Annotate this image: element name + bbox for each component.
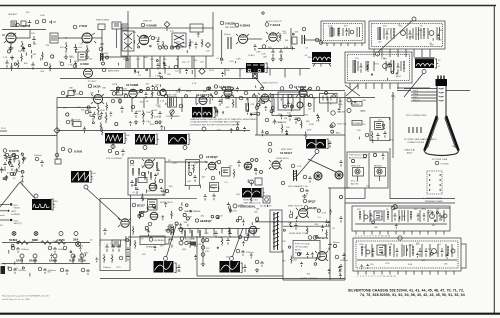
box2 marks — [114, 24, 119, 26]
conv socket1 inner — [356, 170, 358, 172]
circ hr1 — [180, 237, 184, 241]
takeoff circle2 — [291, 105, 294, 108]
small cluster under: cap — [8, 155, 12, 162]
chain1 cap a — [53, 247, 57, 253]
yoke stub y210 — [0, 210, 7, 212]
takeoff circles — [284, 105, 287, 108]
svg-text:12 AU7: 12 AU7 — [248, 54, 256, 57]
vertical wire x257 — [256, 95, 258, 135]
svg-text:1.5K: 1.5K — [415, 34, 420, 36]
IF strip values — [133, 31, 211, 53]
chain2 sym5 — [80, 254, 84, 258]
vertical wire x128 top — [127, 11, 129, 69]
box E nested outline right — [461, 244, 466, 268]
svg-text:2.2K: 2.2K — [261, 53, 266, 55]
svg-text:275V: 275V — [421, 209, 426, 211]
svg-text:470K: 470K — [409, 245, 414, 247]
left cluster circ3 — [260, 171, 263, 174]
box C values — [366, 58, 399, 80]
chain2 cap d — [86, 269, 90, 275]
heater row1 sym b marks — [35, 232, 38, 235]
yoke stub y204 — [0, 204, 10, 206]
yoke stub marker y204 — [10, 203, 12, 205]
circled pin t2 — [73, 25, 77, 29]
svg-text:10K: 10K — [155, 85, 159, 87]
svg-text:5CM4: 5CM4 — [9, 238, 17, 242]
speaker connector dark — [1, 266, 6, 274]
svg-text:275V: 275V — [378, 216, 383, 218]
box D circ2 — [443, 214, 447, 218]
circ so1 — [335, 255, 339, 259]
delay line box — [168, 97, 177, 107]
capacitor C2 — [32, 36, 36, 45]
mixer box — [50, 33, 58, 43]
wire y203 right — [345, 202, 455, 204]
horiz extra parts2 — [290, 209, 328, 264]
small res — [162, 41, 164, 49]
power circ — [119, 256, 123, 260]
vertical x102 — [101, 30, 103, 61]
svg-text:Reproduced by agreement SCHEM: Reproduced by agreement SCHEMATIC No 415 — [2, 295, 50, 298]
node circle A — [35, 20, 39, 24]
border frame bottom rule — [0, 313, 500, 315]
tube V19b electrodes — [151, 215, 157, 218]
mid chain x126 circ — [125, 238, 129, 242]
sound takeoff box outer — [278, 92, 300, 110]
box E in-box mark — [379, 248, 383, 253]
tube V12 — [299, 89, 307, 97]
W4 bracket — [124, 133, 127, 144]
spoked circle 2 — [335, 171, 343, 179]
tube V21 electrodes — [122, 219, 128, 224]
tube V14 stubs — [258, 93, 271, 102]
cap ho — [328, 242, 332, 249]
circled bo2 — [179, 241, 183, 245]
svg-text:47K: 47K — [383, 26, 387, 28]
circled pin d — [176, 46, 179, 49]
svg-text:2.2K: 2.2K — [29, 242, 34, 244]
tube V14 electrodes — [262, 94, 268, 99]
chain2 circ cap b — [38, 267, 42, 271]
cluster res — [22, 155, 24, 164]
svg-text:PIN 6: PIN 6 — [413, 94, 419, 96]
tube V19b — [150, 212, 158, 220]
noise adj circ — [149, 238, 153, 242]
svg-text:ADJ 3%: ADJ 3% — [351, 183, 359, 186]
circ pair vol1 — [315, 38, 319, 42]
svg-text:9 5U8: 9 5U8 — [74, 150, 82, 154]
circled osc2 — [106, 56, 109, 59]
audio cluster circ a1 — [5, 153, 8, 156]
wire y208 — [394, 207, 450, 209]
circ mid2 — [268, 149, 272, 153]
wire y280 — [283, 279, 345, 281]
right parts: box h2 — [117, 88, 123, 96]
svg-text:470K: 470K — [100, 110, 105, 112]
ground vc2 — [158, 120, 162, 125]
tube V23 stubs — [296, 208, 309, 218]
svg-text:68K: 68K — [339, 101, 343, 103]
chain1 heater sym — [76, 242, 81, 247]
chain2 circ cap a — [8, 267, 12, 271]
box B coil1 — [378, 27, 381, 40]
svg-text:4.7K: 4.7K — [192, 83, 197, 85]
ground vc — [134, 120, 138, 125]
res ho pair — [288, 222, 292, 227]
flyback values — [350, 99, 394, 143]
conv cap t — [382, 153, 385, 160]
circ contrast — [170, 110, 174, 114]
svg-text:8CG7A: 8CG7A — [318, 236, 329, 240]
tube V3 osc — [84, 69, 93, 78]
box B circ1 — [401, 31, 406, 36]
cap vc2 — [158, 111, 162, 118]
x203 circ2 — [201, 246, 205, 250]
audio chain values — [256, 31, 312, 59]
circ cap mid — [236, 249, 240, 253]
svg-text:470K: 470K — [78, 246, 83, 248]
svg-text:BRIGHTNESS: BRIGHTNESS — [243, 119, 257, 121]
cap bottom s2 — [271, 49, 275, 57]
circ pair hr1 — [111, 99, 115, 103]
box B inner dashed — [372, 24, 443, 47]
x257 ground — [255, 268, 259, 273]
svg-text:10K: 10K — [219, 216, 223, 218]
tube V12 electrodes — [300, 89, 306, 94]
W11 diagonal — [167, 224, 177, 257]
video bias values — [129, 100, 181, 130]
cluster circ cc2 — [115, 151, 118, 154]
box B coil3 — [437, 27, 440, 40]
box B cap1 — [386, 30, 389, 40]
circled pin if2 — [220, 21, 224, 25]
svg-text:HORIZ HOLD: HORIZ HOLD — [276, 158, 289, 160]
box D cap1 — [370, 213, 373, 221]
circ above elec — [302, 27, 306, 31]
circled pin vo1 — [132, 203, 136, 207]
tube V24 stubs — [315, 251, 328, 261]
circled pin h0 — [61, 91, 65, 95]
parts: res — [151, 90, 153, 98]
cap sd2 — [294, 117, 298, 124]
box D res2 — [387, 211, 389, 220]
svg-text:POWER: POWER — [353, 123, 361, 125]
wire drops from enclosure — [130, 56, 194, 68]
left cluster box — [255, 178, 262, 185]
svg-text:SOUND OUTPUT: SOUND OUTPUT — [300, 278, 317, 280]
terminal dots — [429, 175, 441, 190]
empty rect top — [190, 24, 203, 32]
tube V24 sound out — [318, 252, 327, 261]
CRT neck left — [436, 86, 438, 116]
vert section extra parts — [138, 165, 259, 233]
svg-text:47K: 47K — [60, 47, 64, 49]
box D coil — [402, 210, 405, 221]
ground s3 — [279, 57, 283, 62]
circled ho2 — [289, 214, 293, 218]
cap on x102 — [100, 44, 104, 48]
heater row1 sym d — [74, 232, 78, 236]
circled bo1 — [179, 228, 183, 232]
svg-text:2.2K: 2.2K — [205, 251, 210, 253]
res h2 vertical — [105, 112, 107, 123]
circled right r1 — [331, 111, 335, 115]
circled pin h2 — [88, 84, 92, 88]
svg-text:3.9K CONTRAST: 3.9K CONTRAST — [106, 157, 123, 160]
W2 callout diagonal — [404, 74, 423, 98]
circ vh2 — [148, 222, 152, 226]
wire bus y135 left — [0, 135, 57, 137]
svg-text:4.5K: 4.5K — [328, 26, 333, 28]
chain2 cap a — [13, 268, 17, 274]
vert box — [128, 158, 165, 195]
svg-text:275V: 275V — [303, 114, 308, 116]
wire y276 — [197, 275, 283, 277]
heater row1 sym b — [34, 232, 38, 236]
circled sd3 — [265, 118, 269, 122]
sound det extra parts — [257, 101, 334, 140]
video row pin circles — [116, 87, 335, 98]
pair marks — [123, 26, 127, 28]
tube V5 electrodes — [240, 34, 246, 40]
small parts row: cap — [157, 39, 160, 46]
svg-text:8FQ7: 8FQ7 — [308, 200, 316, 204]
W6 trace — [169, 137, 186, 143]
cluster box — [138, 178, 147, 183]
tube V14 — [261, 94, 269, 102]
wire video bus y90 — [110, 90, 345, 92]
circled vo2 — [217, 160, 220, 163]
cap hr — [120, 106, 124, 113]
tube V1 pin stubs — [2, 33, 16, 43]
box E circ0 — [366, 250, 370, 254]
balun box — [21, 21, 26, 26]
mid chain box — [210, 183, 219, 192]
waveform photo W11 — [154, 261, 174, 273]
res fb — [371, 131, 373, 140]
left cluster cap — [254, 168, 258, 175]
svg-text:6 3DK6: 6 3DK6 — [240, 24, 251, 28]
svg-text:275V: 275V — [74, 94, 79, 96]
res right of V7 — [279, 33, 281, 41]
small rect coil — [292, 37, 297, 44]
svg-text:PIN 7: PIN 7 — [413, 97, 419, 99]
vert box res2 — [138, 168, 140, 176]
box A coil 1 — [330, 27, 333, 37]
tube V7 electrodes — [270, 33, 276, 42]
svg-text:450mw: 450mw — [333, 242, 340, 244]
circled vo4 — [238, 216, 242, 220]
tube V20b — [244, 162, 252, 170]
osc resistor box — [78, 52, 86, 60]
svg-text:56K: 56K — [439, 30, 443, 32]
svg-text:4.7K: 4.7K — [173, 163, 178, 165]
box E res1 — [361, 246, 363, 256]
parts right of W3: cap — [218, 99, 222, 106]
box E cap2 — [396, 248, 399, 257]
svg-text:2ND VIDEO IF: 2ND VIDEO IF — [225, 27, 239, 29]
left small res — [17, 60, 19, 69]
wire main B+ bus y68 — [0, 68, 310, 70]
svg-text:AGC: AGC — [336, 132, 341, 135]
circled mid2 — [195, 219, 198, 222]
cap vc1 — [134, 111, 138, 118]
coil hatches — [293, 171, 297, 180]
box E inner dashed — [356, 241, 458, 268]
svg-text:NOISE ADJ: NOISE ADJ — [154, 239, 165, 242]
W7 trace — [307, 139, 324, 149]
tube V18 — [145, 160, 153, 168]
box E circ2 — [451, 249, 455, 253]
delay line hatches — [170, 98, 174, 106]
svg-text:VERT(?): VERT(?) — [14, 223, 22, 225]
cap on x393 — [391, 93, 395, 100]
svg-text:VIDEO OUTPUT: VIDEO OUTPUT — [262, 83, 278, 85]
svg-text:6.8K: 6.8K — [278, 122, 283, 124]
svg-text:8AQ5: 8AQ5 — [309, 206, 317, 210]
tube V25 electrodes — [273, 161, 279, 166]
W9 bracket — [52, 199, 55, 210]
W1 trace — [313, 57, 331, 60]
tube V10 electrodes — [200, 97, 206, 102]
mini bar hatches — [171, 227, 174, 233]
conv socket1 outer — [355, 169, 360, 174]
svg-text:10K: 10K — [307, 273, 311, 275]
box E cap1 — [372, 248, 375, 257]
CRT lead y98 — [411, 97, 437, 99]
power caps — [105, 244, 121, 252]
svg-text:470K: 470K — [309, 124, 314, 126]
box A resistor — [338, 28, 340, 37]
box D values — [372, 209, 443, 229]
waveform photo W10 — [242, 188, 262, 198]
box E cap4 — [441, 248, 444, 257]
svg-text:33K: 33K — [231, 95, 235, 97]
blocking osc cluster — [139, 210, 212, 246]
vert bus drop wires — [8, 46, 329, 264]
chain2 sym4 — [71, 254, 75, 258]
box D cap2 — [394, 213, 397, 221]
circled pin t4 — [73, 64, 77, 68]
vert output transformer box — [270, 210, 282, 252]
waveform photo W2 — [415, 59, 434, 68]
cluster cap cc — [121, 149, 125, 156]
tube circle small v13 — [160, 89, 166, 95]
tube V4 electrodes — [141, 35, 148, 44]
left cluster circ2 — [255, 159, 258, 162]
waveform photo W6 — [168, 134, 187, 145]
svg-text:47K: 47K — [357, 209, 361, 211]
svg-text:CTL MHz: CTL MHz — [440, 164, 449, 166]
svg-text:33K: 33K — [97, 114, 101, 116]
chain1 circ cap a — [48, 246, 52, 250]
box B extra verticals — [334, 28, 428, 71]
small box below J — [263, 196, 270, 203]
vert box res4 — [150, 172, 152, 180]
svg-text:4.7K: 4.7K — [191, 239, 196, 241]
svg-text:1000mw: 1000mw — [246, 252, 254, 254]
circled pin l2 — [68, 149, 72, 153]
small cap2 — [195, 42, 198, 49]
W3 trace — [193, 107, 211, 118]
box A circ — [350, 30, 354, 34]
tube V20 — [208, 162, 216, 170]
vert box res1 — [132, 168, 134, 176]
cap fb1 — [376, 133, 380, 140]
svg-text:PIN 10: PIN 10 — [413, 100, 420, 102]
box A coil 2 — [357, 27, 360, 37]
IF enclosure box — [121, 28, 213, 56]
svg-text:150V: 150V — [136, 111, 141, 113]
small parts: res — [189, 39, 191, 47]
heater row1 sym a — [12, 232, 16, 236]
circled right r2 — [331, 123, 335, 127]
svg-text:47K: 47K — [217, 130, 221, 132]
chain2 cap c — [65, 269, 69, 275]
conv circ t2 — [373, 153, 376, 156]
left stub y135 — [0, 130, 7, 132]
tube V7 — [269, 33, 277, 41]
tube V2 5U8 — [82, 33, 92, 43]
tube V4 — [139, 35, 149, 45]
svg-text:PICTURE TUBE CHASSIS DEFLN: PICTURE TUBE CHASSIS DEFLN — [404, 138, 437, 141]
waveform photo W5 — [135, 134, 155, 145]
left column small parts: cap — [5, 60, 9, 68]
mixer box coil — [52, 35, 56, 41]
tube V18 electrodes — [146, 160, 152, 165]
svg-text:SPKR: SPKR — [1, 264, 7, 266]
svg-text:74, 75, 528.52050, 51, 52, 54,: 74, 75, 528.52050, 51, 52, 54, 56, 40, 4… — [360, 293, 465, 297]
circled afc3 — [281, 181, 285, 185]
W11 circled num — [164, 257, 168, 261]
box E cap3b — [425, 248, 428, 257]
transformer hatching — [273, 213, 279, 248]
vertical wire x203 — [202, 236, 204, 262]
horiz parts box — [370, 118, 390, 141]
audio out values — [3, 153, 28, 180]
vert out values — [141, 202, 260, 239]
svg-text:275V: 275V — [141, 165, 146, 167]
circled pin t1 — [16, 23, 19, 26]
tube V21 stubs — [118, 218, 131, 227]
cap c203 — [226, 238, 230, 245]
svg-text:SCREEN: SCREEN — [11, 214, 20, 216]
W3 bracket cap — [216, 109, 219, 117]
svg-text:1000mw: 1000mw — [34, 155, 42, 157]
ground g2 — [64, 54, 68, 60]
threshold res — [281, 124, 283, 133]
svg-text:13 8FQ7: 13 8FQ7 — [206, 155, 218, 159]
chain2 sym2 — [33, 254, 37, 258]
noise box parts — [323, 96, 331, 101]
W11 side cap — [178, 265, 181, 273]
heater row1 sym a marks — [13, 232, 16, 235]
wire y222 — [255, 221, 330, 223]
svg-text:33K: 33K — [86, 51, 90, 53]
wire s right — [305, 39, 321, 41]
cap ho2 — [294, 223, 298, 230]
svg-text:100K: 100K — [359, 244, 364, 246]
svg-text:1.5K: 1.5K — [123, 89, 128, 91]
border frame top rule — [0, 5, 496, 7]
svg-text:TON 4W: TON 4W — [337, 112, 345, 114]
circled pin on y208 — [391, 206, 395, 210]
cap vo3 — [237, 160, 241, 167]
vert osc values — [132, 162, 262, 200]
wire right to x128 — [102, 56, 128, 58]
svg-text:4.7K: 4.7K — [221, 171, 226, 173]
W8 diagonal — [87, 189, 121, 220]
